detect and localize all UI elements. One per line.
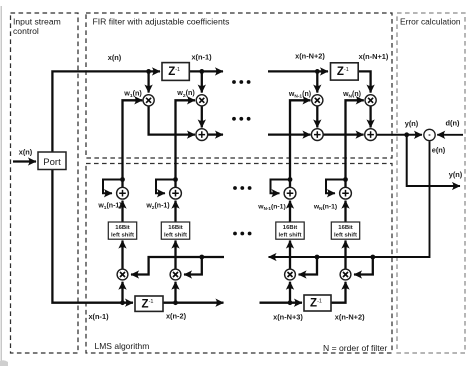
svg-text:left shift: left shift [164,233,187,239]
svg-text:x(n-N+2): x(n-N+2) [335,313,365,322]
svg-text:Port: Port [43,157,61,168]
svg-text:x(n-N+3): x(n-N+3) [273,313,303,322]
svg-text:e(n): e(n) [432,146,446,155]
svg-text:FIR filter with adjustable coe: FIR filter with adjustable coefficients [93,16,230,26]
svg-text:x(n-1): x(n-1) [191,53,212,62]
svg-text:N = order of filter: N = order of filter [323,343,387,353]
svg-text:d(n): d(n) [446,119,460,128]
svg-text:16Bit: 16Bit [338,225,352,231]
svg-text:left shift: left shift [111,233,134,239]
svg-text:control: control [13,26,39,36]
svg-text:16Bit: 16Bit [115,225,129,231]
svg-text:Error calculation: Error calculation [400,17,461,27]
svg-text:wN(n-1): wN(n-1) [313,203,337,211]
svg-text:16Bit: 16Bit [283,225,297,231]
svg-text:x(n-N+2): x(n-N+2) [295,52,325,61]
svg-text:left shift: left shift [279,233,302,239]
svg-text:y(n): y(n) [405,119,419,128]
svg-text:left shift: left shift [334,233,357,239]
svg-text:x(n): x(n) [108,53,122,62]
svg-text:16Bit: 16Bit [168,225,182,231]
svg-text:wN-1(n-1): wN-1(n-1) [257,203,285,211]
svg-text:Input stream: Input stream [13,17,61,27]
svg-text:x(n-N+1): x(n-N+1) [359,52,389,61]
svg-text:LMS algorithm: LMS algorithm [95,341,150,351]
svg-text:y(n): y(n) [449,170,463,179]
svg-text:x(n-1): x(n-1) [88,312,109,321]
svg-text:x(n-2): x(n-2) [166,311,187,320]
svg-text:x(n): x(n) [19,148,33,157]
